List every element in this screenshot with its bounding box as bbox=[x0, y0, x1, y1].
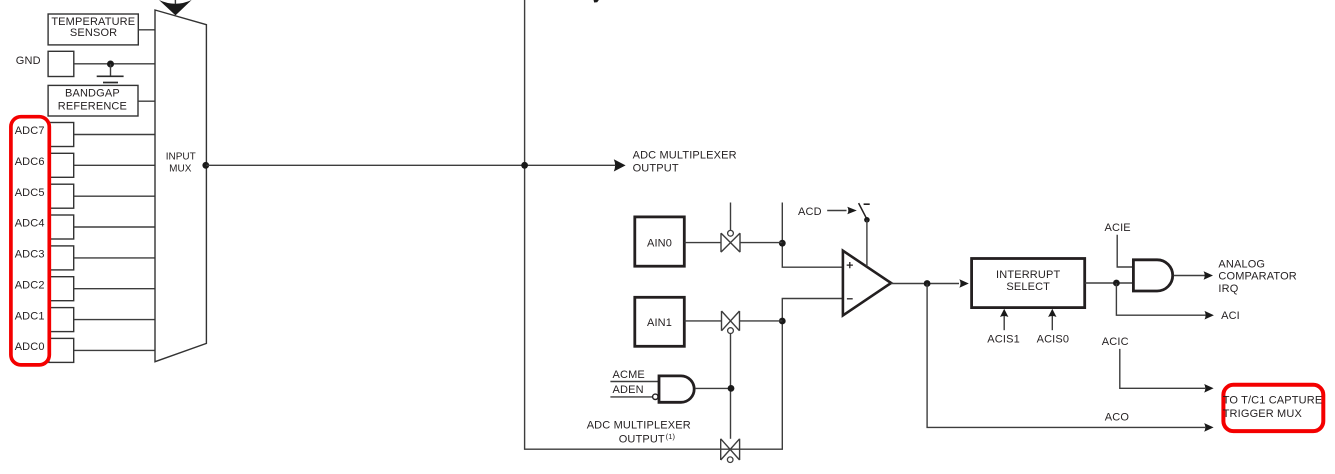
node junction on GND wire bbox=[107, 61, 114, 68]
wire ADC7 to mux bbox=[74, 134, 155, 136]
svg-text:SENSOR: SENSOR bbox=[70, 27, 117, 39]
wire ADC0 to mux bbox=[74, 349, 155, 351]
svg-text:INTERRUPT: INTERRUPT bbox=[996, 269, 1060, 281]
wire ADC3 to mux bbox=[74, 257, 155, 259]
svg-text:ACIC: ACIC bbox=[1102, 336, 1129, 348]
arrow ADC multiplexer output bbox=[614, 159, 626, 171]
wire main vertical from top to bottom elbow bbox=[525, 0, 843, 449]
arrow into interrupt select bbox=[959, 279, 968, 288]
mux U1 INPUT MUX bbox=[155, 10, 206, 362]
svg-text:ADC0: ADC0 bbox=[15, 341, 45, 353]
svg-text:SELECT: SELECT bbox=[1006, 281, 1050, 293]
wire comparator output bbox=[891, 283, 959, 285]
wire ACO bbox=[927, 284, 1214, 432]
svg-text:REFERENCE: REFERENCE bbox=[58, 100, 127, 112]
wire AIN0 to transmission gate bbox=[684, 242, 721, 244]
wire temperature sensor to mux bbox=[138, 29, 155, 31]
node AIN0 junction bbox=[779, 240, 786, 247]
gate U4 AND bbox=[1133, 260, 1172, 291]
svg-text:ADC MULTIPLEXER: ADC MULTIPLEXER bbox=[587, 419, 691, 431]
svg-text:COMPARATOR: COMPARATOR bbox=[1218, 271, 1297, 283]
node comparator output junction bbox=[924, 280, 931, 287]
svg-text:ACIS1: ACIS1 bbox=[987, 333, 1020, 345]
svg-text:ADC3: ADC3 bbox=[15, 249, 45, 261]
svg-text:ADC2: ADC2 bbox=[15, 279, 45, 291]
node junction on ADC mux output bbox=[521, 162, 528, 169]
block BANDGAP REFERENCE bbox=[48, 85, 138, 116]
svg-text:ADC6: ADC6 bbox=[15, 156, 45, 168]
node mux output bbox=[202, 162, 209, 169]
ground bbox=[97, 64, 124, 83]
switch ACD bbox=[798, 203, 870, 266]
wire upper branch to comparator plus input bbox=[782, 203, 843, 268]
block AIN1 bbox=[635, 297, 685, 346]
svg-text:ACI: ACI bbox=[1221, 310, 1240, 322]
ACIS1 control arrow bbox=[987, 309, 1020, 346]
wire ADC1 to mux bbox=[74, 319, 155, 321]
wire ADC5 to mux bbox=[74, 195, 155, 197]
wire ANALOG COMPARATOR IRQ bbox=[1174, 275, 1206, 277]
svg-text:AIN1: AIN1 bbox=[647, 317, 672, 329]
arrow into mux top bbox=[159, 0, 192, 15]
svg-text:MUX: MUX bbox=[169, 163, 192, 174]
svg-text:ACME: ACME bbox=[613, 369, 645, 381]
svg-text:ACD: ACD bbox=[798, 206, 822, 218]
wire bandgap to mux bbox=[138, 100, 155, 102]
pin ACIC label and wire bbox=[1102, 336, 1214, 393]
wire interrupt select to AND gate bbox=[1085, 282, 1133, 284]
svg-text:BANDGAP: BANDGAP bbox=[65, 87, 120, 99]
top mark (cropped arrow remnant) bbox=[594, 0, 599, 3]
wire ADC2 to mux bbox=[74, 288, 155, 290]
svg-text:ANALOG: ANALOG bbox=[1218, 259, 1265, 271]
op-amp comparator U3 bbox=[843, 251, 891, 316]
svg-text:TRIGGER MUX: TRIGGER MUX bbox=[1223, 408, 1303, 420]
svg-text:ACIS0: ACIS0 bbox=[1037, 333, 1070, 345]
block AIN0 bbox=[635, 217, 685, 266]
wire ADC6 to mux bbox=[74, 164, 155, 166]
block INTERRUPT SELECT bbox=[972, 259, 1085, 308]
wire into mux top bbox=[174, 0, 176, 8]
svg-text:OUTPUT: OUTPUT bbox=[633, 163, 679, 175]
highlight ADC pins (red annotation) bbox=[11, 117, 49, 365]
svg-text:GND: GND bbox=[16, 55, 41, 67]
node AIN1 junction bbox=[779, 318, 786, 325]
svg-text:INPUT: INPUT bbox=[166, 151, 196, 162]
wire ADC4 to mux bbox=[74, 226, 155, 228]
gate U2 NAND (ACME/ADEN) bbox=[610, 369, 731, 402]
wire ADC multiplexer output bbox=[206, 164, 615, 166]
svg-text:AIN0: AIN0 bbox=[647, 237, 672, 249]
node NAND output junction bbox=[728, 385, 735, 392]
wire T2 to junction bbox=[740, 320, 783, 322]
transmission gate T1 (AIN0) bbox=[721, 203, 740, 253]
svg-text:ACO: ACO bbox=[1105, 412, 1130, 424]
wire AIN1 to transmission gate bbox=[684, 320, 721, 322]
svg-text:ADC MULTIPLEXER: ADC MULTIPLEXER bbox=[633, 150, 737, 162]
svg-text:IRQ: IRQ bbox=[1218, 283, 1238, 295]
svg-text:ADC7: ADC7 bbox=[15, 125, 45, 137]
svg-text:ADC5: ADC5 bbox=[15, 187, 45, 199]
wire GND to mux bbox=[74, 63, 155, 65]
wire ACI bbox=[1116, 283, 1239, 322]
svg-text:ACIE: ACIE bbox=[1105, 222, 1131, 234]
transmission gate T2 (AIN1) bbox=[722, 311, 740, 439]
pin ACIE label and wire bbox=[1105, 222, 1134, 267]
svg-text:ADC1: ADC1 bbox=[15, 310, 45, 322]
transmission gate T3 (ADC multiplexer output) bbox=[721, 439, 740, 463]
highlight TO T/C1 CAPTURE TRIGGER MUX (red annotation) bbox=[1223, 385, 1324, 431]
node junction before AND gate bbox=[1113, 280, 1120, 287]
svg-text:ADEN: ADEN bbox=[613, 384, 644, 396]
block TEMPERATURE SENSOR bbox=[48, 14, 138, 45]
svg-text:ADC4: ADC4 bbox=[15, 218, 45, 230]
ACIS0 control arrow bbox=[1037, 309, 1070, 346]
svg-text:TO T/C1 CAPTURE: TO T/C1 CAPTURE bbox=[1223, 395, 1323, 407]
block GND pad bbox=[48, 51, 74, 76]
wire T1 to junction bbox=[740, 242, 782, 244]
